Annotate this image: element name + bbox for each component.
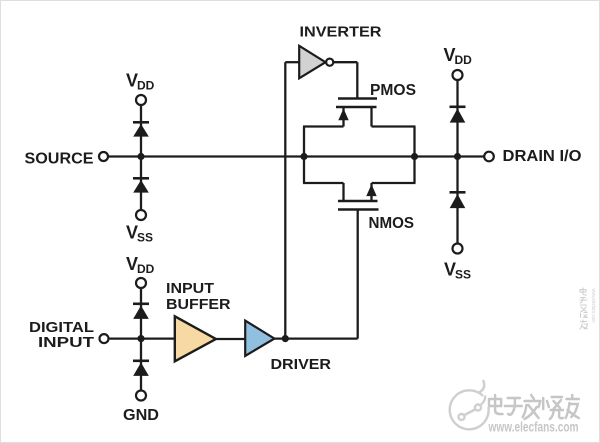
svg-text:DRAIN I/O: DRAIN I/O: [503, 148, 582, 165]
svg-text:SOURCE: SOURCE: [25, 151, 94, 168]
svg-text:DD: DD: [137, 262, 155, 276]
svg-text:DD: DD: [137, 79, 155, 93]
svg-text:www.elecfans.com: www.elecfans.com: [590, 289, 596, 323]
svg-text:SS: SS: [455, 268, 471, 282]
svg-text:NMOS: NMOS: [369, 215, 415, 232]
svg-text:www.elecfans.com: www.elecfans.com: [488, 420, 579, 435]
svg-text:INPUT: INPUT: [166, 280, 214, 297]
svg-text:DRIVER: DRIVER: [271, 356, 332, 373]
svg-text:DD: DD: [455, 53, 473, 67]
svg-text:INPUT: INPUT: [38, 334, 94, 351]
svg-text:PMOS: PMOS: [370, 82, 416, 99]
svg-text:SS: SS: [137, 231, 153, 245]
svg-text:INVERTER: INVERTER: [300, 24, 382, 41]
svg-text:BUFFER: BUFFER: [166, 296, 231, 313]
svg-text:GND: GND: [123, 407, 159, 424]
